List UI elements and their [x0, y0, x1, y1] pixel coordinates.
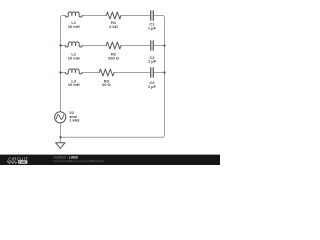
inductor L2 [65, 42, 82, 47]
label R2 [108, 52, 120, 61]
inductor L1 [65, 12, 82, 17]
label C3 [148, 80, 157, 89]
svg-text:10 mH: 10 mH [68, 82, 80, 87]
wire bottom rail [61, 136, 163, 138]
svg-text:1 kHz: 1 kHz [69, 118, 79, 123]
label C1 [148, 22, 157, 31]
wire row3 segments [61, 72, 165, 74]
label L3 [68, 78, 80, 87]
resistor R1 [106, 12, 121, 19]
wire row2 segments [61, 45, 165, 47]
label R3 [102, 78, 112, 87]
svg-text:10 mH: 10 mH [68, 24, 80, 29]
svg-text:1 µF: 1 µF [148, 58, 157, 63]
wire left rail top segment [61, 16, 63, 112]
label C2 [148, 55, 157, 63]
node left rail row3 [59, 71, 61, 73]
node bottom junction [59, 136, 61, 138]
node right rail row3 [163, 71, 165, 73]
inductor L3 [65, 69, 82, 74]
wire ground stem [60, 137, 62, 142]
svg-text:2 kΩ: 2 kΩ [109, 24, 119, 29]
footer bar [0, 155, 220, 165]
voltage source V2 [55, 112, 66, 123]
wire row1 segments [63, 15, 163, 17]
svg-text:http://circuitlab.com/c/nqze4/: http://circuitlab.com/c/nqze4/5f3azwdh [54, 159, 105, 163]
svg-text:200 Ω: 200 Ω [108, 55, 120, 60]
wire right rail [163, 16, 165, 138]
capacitor C2 [151, 41, 154, 50]
svg-text:1 µF: 1 µF [148, 25, 157, 30]
node left rail row2 [59, 44, 61, 46]
resistor R3 [99, 69, 114, 76]
label R1 [109, 20, 119, 29]
svg-text:20 Ω: 20 Ω [102, 82, 112, 87]
resistor R2 [106, 42, 121, 49]
label V2 [69, 110, 79, 122]
label L2 [68, 52, 80, 61]
svg-text:LAB: LAB [19, 160, 26, 164]
svg-text:10 mH: 10 mH [68, 55, 80, 60]
svg-text:1 µF: 1 µF [148, 84, 157, 89]
node right rail row2 [163, 44, 165, 46]
capacitor C1 [151, 11, 154, 20]
CircuitLab logo [7, 156, 28, 164]
capacitor C3 [151, 68, 154, 77]
label L1 [68, 20, 80, 29]
ground [56, 143, 65, 149]
wire left rail below source [60, 123, 62, 137]
